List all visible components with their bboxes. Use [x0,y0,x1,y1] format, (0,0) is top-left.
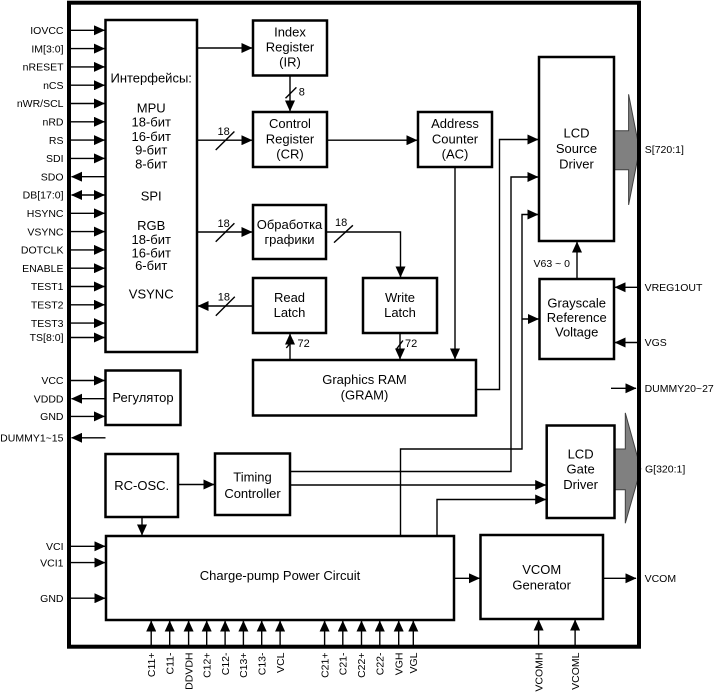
svg-text:C21+: C21+ [319,653,331,678]
svg-text:Latch: Latch [384,305,416,320]
wire graphics RAM to LCD source driver [476,140,538,390]
wire RC-OSC to charge pump [141,517,143,535]
pin VCI1 [40,557,105,569]
pin IM[3:0] [31,43,104,55]
pin RS [49,135,105,147]
svg-text:Gate: Gate [567,462,595,477]
chip outer border [69,3,639,647]
svg-text:VCOMH: VCOMH [533,653,545,692]
svg-text:DOTCLK: DOTCLK [21,245,64,257]
pin TEST3 [31,318,105,330]
wire timing controller to LCD gate driver [290,484,546,486]
block address counter [418,112,492,167]
block index register [253,21,327,76]
pin DOTCLK [21,245,105,257]
svg-text:C12+: C12+ [201,653,213,678]
svg-text:18-бит: 18-бит [131,115,170,130]
block regulator [106,371,181,426]
svg-text:Graphics RAM: Graphics RAM [322,372,407,387]
svg-text:Интерфейсы:: Интерфейсы: [110,71,191,86]
pin SDI [46,153,105,165]
pin DUMMY1~15 [0,433,105,445]
svg-text:C11-: C11- [164,652,176,674]
pin DUMMY20~27 [611,383,714,395]
svg-text:VCOM: VCOM [645,573,677,585]
pin C13+ [238,621,250,678]
pin C11+ [146,621,158,677]
pin C21+ [319,621,331,678]
pin VREG1OUT [615,282,703,294]
svg-text:DUMMY1~15: DUMMY1~15 [0,433,63,445]
svg-text:18: 18 [335,217,347,229]
svg-text:VCOML: VCOML [570,652,582,690]
svg-text:18: 18 [218,126,230,138]
svg-text:8-бит: 8-бит [135,157,167,172]
pin VCI [46,541,105,553]
svg-text:DUMMY20~27: DUMMY20~27 [645,383,714,395]
svg-text:VGH: VGH [393,653,405,676]
pin SDO [41,171,106,183]
svg-text:C11+: C11+ [146,653,158,678]
gray bus arrow G[320:1] [615,413,641,523]
svg-text:18: 18 [218,292,230,304]
svg-text:VCC: VCC [41,375,64,387]
svg-text:nRD: nRD [42,117,63,129]
pin nWR/SCL [17,98,105,110]
wire RC-OSC to timing controller [178,484,214,486]
svg-text:GND: GND [40,411,64,423]
block VCOM generator [481,535,604,619]
svg-text:VCOM: VCOM [522,562,561,577]
gray bus arrow S[720:1] [614,94,640,205]
svg-text:8: 8 [299,86,305,98]
wire address counter to graphics RAM [454,167,456,359]
svg-text:VSYNC: VSYNC [27,226,64,238]
pin C13- [256,621,268,675]
svg-text:S[720:1]: S[720:1] [645,144,684,156]
svg-text:VCI: VCI [46,541,64,553]
svg-text:Charge-pump Power Circuit: Charge-pump Power Circuit [200,568,361,583]
svg-text:VGL: VGL [408,652,420,673]
pin C12+ [201,621,213,678]
wire branch to grayscale reference voltage [522,318,539,320]
svg-text:C12-: C12- [220,652,232,675]
svg-text:Control: Control [269,116,311,131]
svg-text:RC-OSC.: RC-OSC. [114,478,169,493]
block graphics processing [253,205,326,259]
svg-text:графики: графики [264,232,314,247]
pin C12- [220,621,232,675]
svg-text:RGB: RGB [137,218,165,233]
block RC-OSC [106,454,179,517]
svg-text:nCS: nCS [43,80,63,92]
pin VGH [393,621,405,675]
block LCD source driver [539,57,614,241]
svg-text:Register: Register [266,39,315,54]
block LCD gate driver [547,426,615,519]
svg-text:Latch: Latch [274,305,306,320]
svg-text:Reference: Reference [547,310,607,325]
svg-text:Grayscale: Grayscale [547,296,606,311]
svg-text:GND: GND [40,593,64,605]
wire read latch to interface bus 18 [198,292,253,316]
wire timing controller to LCD source driver [290,177,538,472]
svg-text:(GRAM): (GRAM) [341,387,389,402]
svg-text:HSYNC: HSYNC [27,208,64,220]
svg-text:Index: Index [274,24,306,39]
block grayscale reference voltage [540,279,615,359]
block write latch [363,278,437,333]
svg-text:LCD: LCD [563,126,589,141]
wire interface to index register [197,47,252,49]
svg-text:G[320:1]: G[320:1] [645,464,685,476]
pin TEST2 [31,300,105,312]
svg-text:SPI: SPI [141,189,162,204]
wire charge pump to VCOM generator [454,577,480,579]
svg-text:RS: RS [49,135,64,147]
svg-text:Register: Register [266,131,315,146]
svg-text:DB[17:0]: DB[17:0] [23,190,64,202]
pin C22+ [356,621,368,678]
pin HSYNC [27,208,105,220]
svg-text:LCD: LCD [568,446,594,461]
wire write latch to graphics RAM bus 72 [396,333,417,359]
svg-text:(CR): (CR) [276,147,303,162]
wire index register to control register bus 8 [286,76,305,112]
svg-text:SDO: SDO [41,171,64,183]
pin IOVCC [30,25,104,37]
wire control register to address counter [327,139,417,141]
svg-text:Controller: Controller [224,486,281,501]
svg-text:IOVCC: IOVCC [30,25,64,37]
svg-text:Source: Source [556,141,597,156]
wire graphics RAM to read latch bus 72 [286,334,309,360]
block graphics RAM [253,360,476,416]
wire grayscale to LCD source driver V63~0 [534,242,578,279]
wire graphics processing to write latch bus 18 [326,217,401,277]
svg-text:VGS: VGS [645,337,667,349]
svg-text:VCI1: VCI1 [40,557,64,569]
block control register [253,112,327,167]
pin VCC [41,375,104,387]
svg-text:Address: Address [431,116,479,131]
wire charge pump to LCD source driver [401,215,539,537]
wire interface to control register bus 18 [197,126,252,150]
svg-text:16-бит: 16-бит [131,129,170,144]
svg-text:Driver: Driver [563,477,598,492]
svg-text:Write: Write [385,290,415,305]
svg-text:18: 18 [218,218,230,230]
svg-text:SDI: SDI [46,153,64,165]
svg-text:C21-: C21- [338,652,350,675]
pin GND lower [40,593,105,605]
pin VDDD [34,393,106,405]
svg-text:9-бит: 9-бит [135,143,167,158]
pin C11- [164,621,176,674]
pin DDVDH [183,621,195,690]
svg-text:TEST3: TEST3 [31,318,64,330]
pin nRESET [23,62,105,74]
svg-text:Counter: Counter [432,131,479,146]
svg-text:C13-: C13- [256,652,268,675]
block timing controller [215,454,290,516]
pin VGL [408,621,420,674]
svg-text:C22-: C22- [375,652,387,675]
svg-text:72: 72 [405,338,417,350]
pin VCOMH [533,620,545,692]
svg-text:VDDD: VDDD [34,393,64,405]
svg-text:TEST2: TEST2 [31,300,64,312]
svg-text:Регулятор: Регулятор [112,390,173,405]
pin TS[8:0] [30,332,105,344]
pin C22- [375,621,387,675]
wire charge pump to LCD gate driver [437,500,546,537]
svg-text:V63 ~ 0: V63 ~ 0 [534,258,571,270]
svg-text:VCL: VCL [275,652,287,673]
block charge pump [106,536,454,620]
block interface [106,20,198,352]
svg-text:Generator: Generator [512,578,571,593]
svg-text:VREG1OUT: VREG1OUT [645,282,703,294]
pin C21- [338,621,350,675]
block read latch [253,278,326,333]
pin nRD [42,117,104,129]
svg-text:Timing: Timing [233,469,272,484]
svg-text:TS[8:0]: TS[8:0] [30,332,64,344]
svg-text:nWR/SCL: nWR/SCL [17,98,64,110]
svg-text:72: 72 [298,338,310,350]
svg-text:Read: Read [274,290,305,305]
wire interface to graphics processing bus 18 [197,218,252,242]
pin VGS [615,337,667,349]
svg-text:DDVDH: DDVDH [183,653,195,690]
svg-text:ENABLE: ENABLE [22,263,63,275]
svg-text:(AC): (AC) [442,147,469,162]
pin DB[17:0] [23,190,105,202]
svg-text:Voltage: Voltage [555,325,598,340]
pin VSYNC [27,226,104,238]
svg-text:VSYNC: VSYNC [129,287,174,302]
svg-text:TEST1: TEST1 [31,281,64,293]
pin GND [40,411,104,423]
pin ENABLE [22,263,104,275]
svg-text:IM[3:0]: IM[3:0] [31,43,63,55]
svg-text:C22+: C22+ [356,653,368,678]
svg-text:Обработка: Обработка [257,217,323,232]
pin VCOML [570,620,582,690]
pin VCL [275,621,287,673]
pin TEST1 [31,281,105,293]
svg-text:Driver: Driver [559,156,594,171]
svg-text:C13+: C13+ [238,653,250,678]
svg-text:nRESET: nRESET [23,62,64,74]
svg-text:MPU: MPU [137,100,166,115]
pin nCS [43,80,104,92]
wire VCOM generator to VCOM pin [603,573,676,585]
svg-text:6-бит: 6-бит [135,258,167,273]
svg-text:(IR): (IR) [279,55,301,70]
